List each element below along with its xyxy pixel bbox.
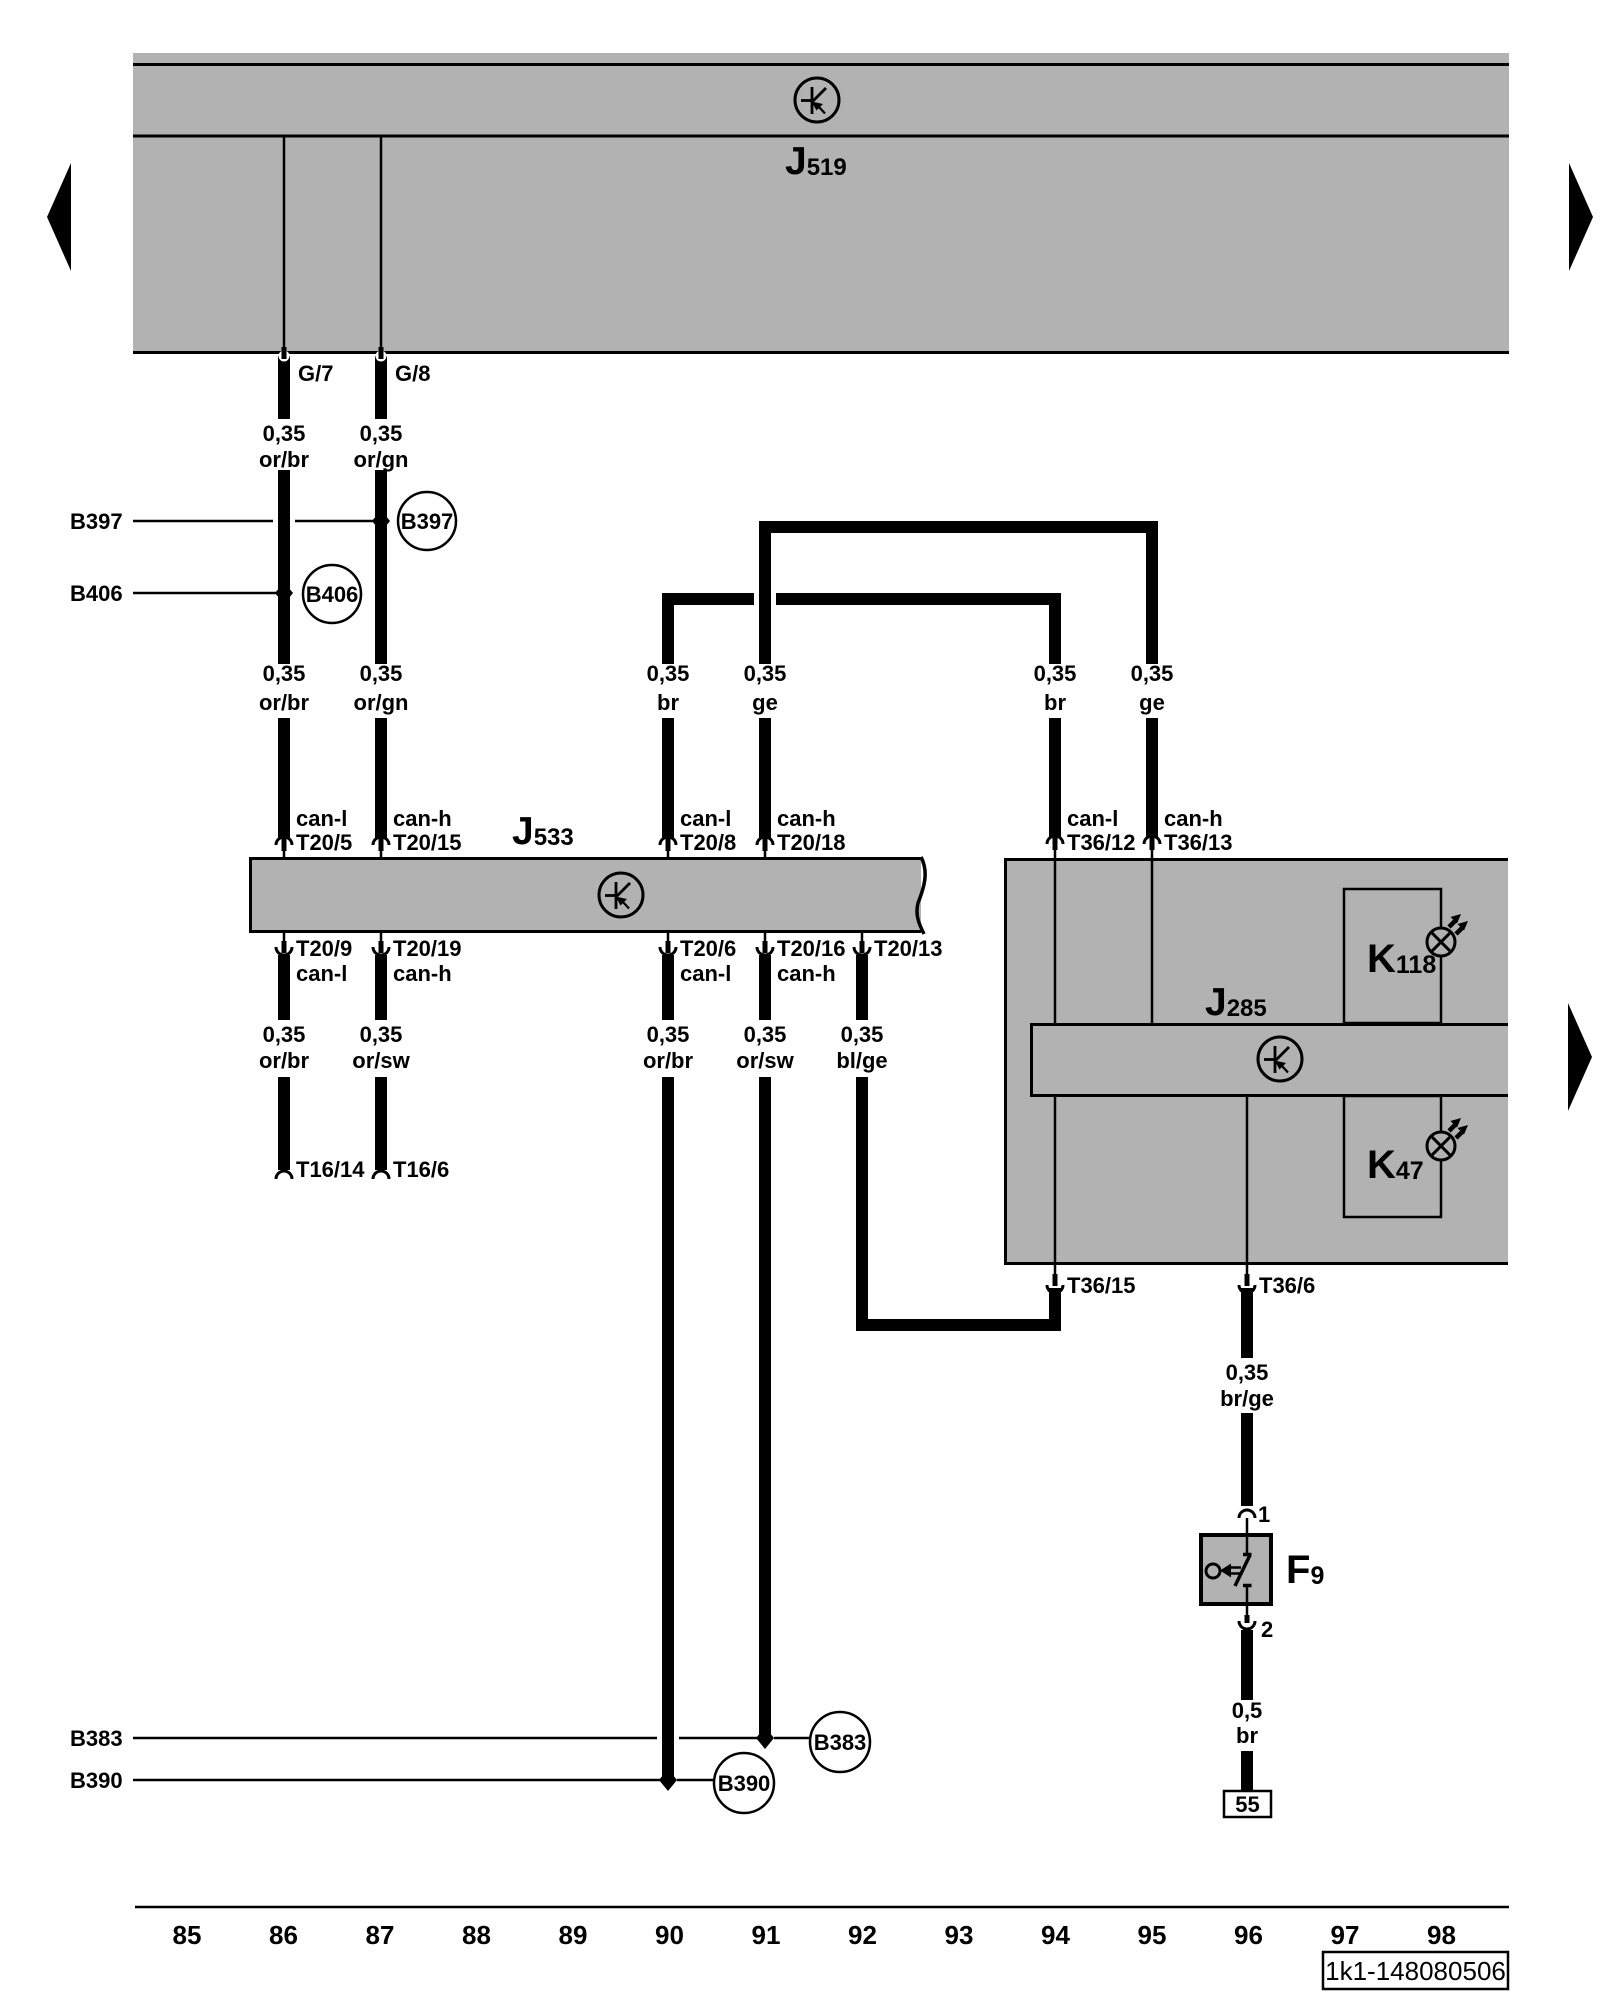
junction B397 <box>372 510 390 532</box>
svg-text:can-l: can-l <box>296 961 347 986</box>
svg-text:85: 85 <box>173 1920 202 1950</box>
wire B383 lead <box>133 1737 810 1740</box>
svg-text:can-h: can-h <box>1164 806 1223 831</box>
svg-text:T36/13: T36/13 <box>1164 830 1233 855</box>
svg-text:can-l: can-l <box>680 961 731 986</box>
svg-text:0,5: 0,5 <box>1232 1698 1263 1723</box>
svg-text:T20/15: T20/15 <box>393 830 462 855</box>
pin T20/9 connector <box>276 933 292 955</box>
wire or/br from T20/6 down to B390 <box>643 955 694 1780</box>
svg-text:86: 86 <box>269 1920 298 1950</box>
wire or/sw from T20/19 to T16/6 <box>352 955 410 1179</box>
svg-text:0,35: 0,35 <box>1226 1360 1269 1385</box>
pin T20/13 connector <box>854 933 870 955</box>
svg-text:0,35: 0,35 <box>744 1022 787 1047</box>
gateway symbol in J533 <box>599 873 643 917</box>
svg-text:T20/13: T20/13 <box>874 936 943 961</box>
junction B406 <box>275 582 293 604</box>
svg-text:1k1-148080506: 1k1-148080506 <box>1325 1956 1506 1986</box>
svg-text:or/sw: or/sw <box>352 1048 410 1073</box>
svg-text:0,35: 0,35 <box>263 1022 306 1047</box>
svg-text:55: 55 <box>1235 1792 1259 1817</box>
pin T36/12 connector <box>1047 836 1063 858</box>
svg-text:br: br <box>657 690 679 715</box>
svg-text:ge: ge <box>1139 690 1165 715</box>
svg-text:T36/6: T36/6 <box>1259 1273 1315 1298</box>
pin 2 of F9 <box>1239 1606 1255 1629</box>
wire or/gn from G/8 (segment 1) <box>354 362 409 838</box>
direction arrow right top <box>1569 163 1593 271</box>
svg-text:0,35: 0,35 <box>263 661 306 686</box>
svg-text:can-l: can-l <box>1067 806 1118 831</box>
svg-text:88: 88 <box>462 1920 491 1950</box>
svg-text:bl/ge: bl/ge <box>836 1048 887 1073</box>
svg-text:0,35: 0,35 <box>647 1022 690 1047</box>
direction arrow left <box>47 163 71 271</box>
svg-text:can-h: can-h <box>393 806 452 831</box>
grid numbers 85-98 <box>173 1920 1456 1950</box>
lamp sub-box K47 <box>1344 1096 1441 1217</box>
svg-text:T20/9: T20/9 <box>296 936 352 961</box>
svg-text:B390: B390 <box>718 1771 771 1796</box>
svg-text:90: 90 <box>655 1920 684 1950</box>
direction arrow right middle <box>1568 1003 1592 1111</box>
switch F9 handbrake warning switch <box>1201 1535 1271 1604</box>
pin T20/5 connector <box>276 837 292 859</box>
svg-text:T16/14: T16/14 <box>296 1157 365 1182</box>
pin T20/18 connector <box>757 837 773 859</box>
gateway symbol in J285 <box>1258 1037 1302 1081</box>
svg-text:can-l: can-l <box>680 806 731 831</box>
lamp sub-box K118 <box>1344 889 1441 1023</box>
svg-text:0,35: 0,35 <box>360 1022 403 1047</box>
svg-text:can-h: can-h <box>393 961 452 986</box>
pin T20/6 connector <box>660 933 676 955</box>
svg-text:B397: B397 <box>401 509 454 534</box>
svg-text:B406: B406 <box>306 582 359 607</box>
wire B397 lead <box>133 520 373 523</box>
svg-text:br: br <box>1236 1723 1258 1748</box>
wire ge to T20/18 <box>744 521 787 838</box>
warning lamp symbol K47 <box>1427 1118 1468 1160</box>
svg-text:or/br: or/br <box>259 1048 310 1073</box>
wire inside J285 from bar to T36/15 <box>1054 1096 1057 1263</box>
svg-text:0,35: 0,35 <box>744 661 787 686</box>
control unit J519 onboard supply control unit bar <box>133 53 1509 354</box>
junction B390 <box>659 1769 677 1791</box>
svg-text:or/gn: or/gn <box>354 690 409 715</box>
svg-text:or/sw: or/sw <box>736 1048 794 1073</box>
svg-text:0,35: 0,35 <box>841 1022 884 1047</box>
wire br to T20/8 <box>647 593 690 838</box>
svg-text:can-h: can-h <box>777 806 836 831</box>
svg-text:T16/6: T16/6 <box>393 1157 449 1182</box>
svg-text:can-h: can-h <box>777 961 836 986</box>
svg-text:T20/16: T20/16 <box>777 936 846 961</box>
svg-text:ge: ge <box>752 690 778 715</box>
wire inside J519 to G/7 <box>283 137 286 351</box>
wire B406 lead <box>133 592 276 595</box>
svg-text:92: 92 <box>848 1920 877 1950</box>
svg-text:0,35: 0,35 <box>1034 661 1077 686</box>
svg-text:T36/15: T36/15 <box>1067 1273 1136 1298</box>
pin G/8 socket <box>375 347 387 366</box>
wire can-l br horizontal bus (right part) <box>776 593 1061 605</box>
svg-text:B383: B383 <box>814 1730 867 1755</box>
svg-text:B406: B406 <box>70 581 123 606</box>
svg-text:97: 97 <box>1331 1920 1360 1950</box>
svg-text:or/br: or/br <box>259 447 310 472</box>
svg-text:T36/12: T36/12 <box>1067 830 1136 855</box>
svg-text:or/br: or/br <box>643 1048 694 1073</box>
svg-text:G/7: G/7 <box>298 361 333 386</box>
svg-text:br: br <box>1044 690 1066 715</box>
terminal 55 <box>1224 1791 1271 1817</box>
svg-text:can-l: can-l <box>296 806 347 831</box>
wire B390 lead <box>133 1779 714 1782</box>
inner control bar of J285 <box>1030 1023 1508 1097</box>
pin T36/6 connector <box>1239 1265 1255 1293</box>
pin T20/15 connector <box>373 837 389 859</box>
svg-text:87: 87 <box>366 1920 395 1950</box>
wire inside J285 from bar to T36/6 <box>1246 1096 1249 1263</box>
svg-text:T20/8: T20/8 <box>680 830 736 855</box>
svg-text:96: 96 <box>1234 1920 1263 1950</box>
wire bl/ge from T20/13 to T36/15 <box>836 955 1063 1331</box>
node circle B406 <box>303 565 361 623</box>
wire br from F9 to terminal 55 <box>1232 1630 1263 1791</box>
wire inside J285 from T36/12 to bar <box>1054 860 1057 1023</box>
svg-text:G/8: G/8 <box>395 361 430 386</box>
wire inside J285 from T36/13 to bar <box>1151 860 1154 1023</box>
wire br to T36/12 <box>1034 593 1077 837</box>
svg-text:T20/18: T20/18 <box>777 830 846 855</box>
svg-text:T20/5: T20/5 <box>296 830 352 855</box>
junction B383 <box>756 1727 774 1749</box>
pin T20/16 connector <box>757 933 773 955</box>
svg-text:91: 91 <box>752 1920 781 1950</box>
svg-text:94: 94 <box>1041 1920 1070 1950</box>
svg-text:0,35: 0,35 <box>1131 661 1174 686</box>
svg-text:0,35: 0,35 <box>360 421 403 446</box>
wire or/sw from T20/16 down to B383 <box>736 955 794 1738</box>
svg-text:br/ge: br/ge <box>1220 1386 1274 1411</box>
svg-text:89: 89 <box>559 1920 588 1950</box>
svg-text:98: 98 <box>1427 1920 1456 1950</box>
svg-text:T20/6: T20/6 <box>680 936 736 961</box>
wire ge to T36/13 <box>1131 521 1174 837</box>
svg-text:95: 95 <box>1138 1920 1167 1950</box>
wire inside J519 to G/8 <box>380 137 383 351</box>
svg-text:0,35: 0,35 <box>360 661 403 686</box>
svg-text:0,35: 0,35 <box>647 661 690 686</box>
pin T36/13 connector <box>1144 836 1160 858</box>
svg-text:1: 1 <box>1258 1502 1270 1527</box>
control unit J533 data bus diagnostic interface bar <box>249 857 925 934</box>
svg-text:2: 2 <box>1261 1617 1273 1642</box>
svg-text:B397: B397 <box>70 509 123 534</box>
wire br/ge from T36/6 to F9 <box>1220 1288 1274 1533</box>
node circle B390 <box>714 1753 774 1813</box>
wire can-l br horizontal bus (left part) <box>662 593 754 605</box>
svg-text:T20/19: T20/19 <box>393 936 462 961</box>
svg-text:or/br: or/br <box>259 690 310 715</box>
svg-text:93: 93 <box>945 1920 974 1950</box>
wire can-h ge horizontal bus <box>759 521 1158 533</box>
gateway symbol in J519 <box>795 78 839 122</box>
svg-text:B390: B390 <box>70 1768 123 1793</box>
warning lamp symbol K118 <box>1427 914 1468 956</box>
svg-text:0,35: 0,35 <box>263 421 306 446</box>
wire or/br from G/7 (segment 1) <box>259 362 310 838</box>
node circle B383 <box>810 1712 870 1772</box>
svg-text:B383: B383 <box>70 1726 123 1751</box>
wire or/br from T20/9 to T16/14 <box>259 955 310 1179</box>
grid ruler line <box>135 1906 1509 1909</box>
pin T20/8 connector <box>660 837 676 859</box>
pin T20/19 connector <box>373 933 389 955</box>
node circle B397 <box>398 492 456 550</box>
control unit J285 instrument cluster box <box>1004 858 1508 1265</box>
pin G/7 socket <box>278 347 290 366</box>
svg-text:or/gn: or/gn <box>354 447 409 472</box>
diagram number box <box>1323 1952 1508 1989</box>
